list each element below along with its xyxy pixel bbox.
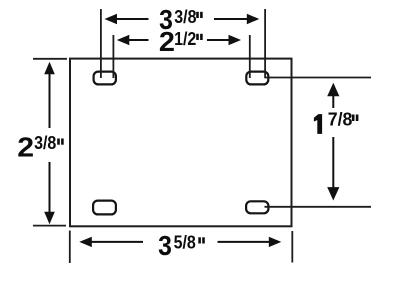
dimension 2-3/8 vertical shaft lower bbox=[49, 162, 51, 214]
dimension 3-5/8 shaft left bbox=[91, 241, 144, 243]
extension line inner-right from top-right slot bbox=[249, 35, 251, 78]
svg-text:5/8: 5/8 bbox=[174, 231, 197, 252]
label 2-1/2 inch ticks bbox=[196, 34, 199, 40]
extension line bottom-left of plate for 2-3/8 bbox=[33, 225, 66, 227]
slot top-left bbox=[94, 72, 116, 85]
label 3-3/8 inch ticks bbox=[196, 12, 199, 18]
svg-text:3/8: 3/8 bbox=[174, 6, 197, 27]
extension line below bottom-left corner for 3-5/8 bbox=[69, 231, 71, 264]
dimension 1-7/8 down arrowhead bbox=[327, 187, 339, 200]
label 2-3/8 inch ticks bbox=[57, 139, 60, 145]
label 3-5/8 inch ticks bbox=[198, 237, 201, 243]
dimension 3-5/8 shaft right bbox=[218, 241, 271, 243]
plate outline bbox=[70, 59, 292, 227]
dimension 3-3/8 shaft right bbox=[214, 18, 248, 20]
extension line outer-left from top-left slot bbox=[100, 9, 102, 78]
dimension 3-3/8 right arrowhead bbox=[247, 14, 259, 24]
reference line upper right for 1-7/8 bbox=[265, 77, 372, 79]
dimension 2-1/2 shaft left bbox=[128, 39, 149, 41]
dimension 2-1/2 left arrowhead bbox=[117, 35, 130, 45]
dimension 2-1/2 shaft right bbox=[207, 39, 230, 41]
dimension 3-5/8 left arrowhead bbox=[79, 237, 92, 247]
dimension 1-7/8 vertical shaft upper bbox=[332, 93, 334, 108]
svg-text:2: 2 bbox=[159, 26, 175, 57]
svg-text:3: 3 bbox=[158, 230, 172, 262]
svg-text:3/8: 3/8 bbox=[34, 132, 57, 153]
svg-text:1/2: 1/2 bbox=[174, 28, 196, 49]
label 1-7/8 inch ticks bbox=[352, 115, 355, 122]
dimension 2-3/8 vertical shaft upper bbox=[49, 72, 51, 128]
extension line below bottom-right corner for 3-5/8 bbox=[291, 231, 293, 263]
dimension 3-5/8 right arrowhead bbox=[269, 237, 282, 247]
slot bottom-left bbox=[93, 201, 116, 215]
reference line lower right for 1-7/8 bbox=[265, 206, 372, 208]
label 1-7/8 big digit bbox=[314, 114, 322, 134]
dimension 2-3/8 up arrowhead bbox=[44, 62, 55, 75]
dimension 2-3/8 down arrowhead bbox=[44, 212, 55, 225]
svg-text:7/8: 7/8 bbox=[328, 108, 353, 130]
dimension 3-3/8 shaft left bbox=[116, 18, 149, 20]
dimension 1-7/8 up arrowhead bbox=[327, 83, 339, 96]
extension line inner-left from top-left slot bbox=[112, 35, 114, 78]
extension line top-left of plate for 2-3/8 bbox=[33, 58, 67, 60]
slot bottom-right bbox=[246, 201, 268, 213]
extension line outer-right from top-right slot bbox=[264, 9, 266, 78]
svg-text:2: 2 bbox=[17, 133, 34, 163]
dimension 1-7/8 vertical shaft lower bbox=[332, 137, 334, 190]
dimension 2-1/2 right arrowhead bbox=[229, 35, 242, 45]
dimension 3-3/8 left arrowhead bbox=[105, 14, 118, 24]
slot top-right bbox=[246, 72, 268, 85]
